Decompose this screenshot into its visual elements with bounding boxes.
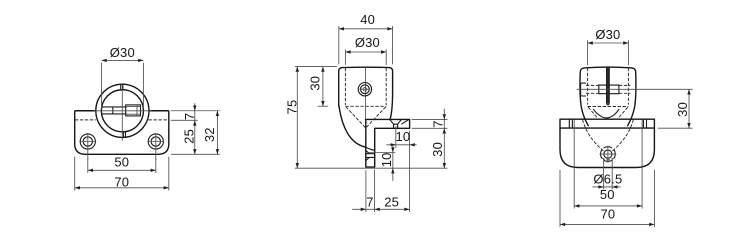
dimension Ø30 (front) line — [102, 59, 144, 61]
svg-text:Ø30: Ø30 — [595, 27, 620, 42]
svg-text:70: 70 — [114, 175, 129, 190]
center hole Ø6.5 (back) — [604, 150, 612, 158]
long bottom extension line — [295, 167, 447, 169]
left screw hole Ø6.5 — [83, 137, 92, 146]
svg-text:75: 75 — [284, 100, 299, 115]
dimension line for 32 — [216, 111, 218, 155]
svg-text:Ø30: Ø30 — [355, 35, 380, 50]
clamp screw center mark — [363, 87, 367, 91]
bore hidden lines (side) — [345, 68, 386, 106]
svg-text:7: 7 — [182, 113, 197, 120]
svg-text:30: 30 — [675, 102, 690, 117]
dimension 50 extension lines — [88, 158, 156, 173]
clamp screw head (side, axial) — [358, 83, 371, 96]
dimension Ø30 (side) extension lines — [345, 49, 386, 65]
dimension 10 (vertical) line — [392, 145, 394, 181]
base plate outline — [75, 111, 169, 155]
wall plate outline (back) — [560, 119, 654, 167]
bore hidden lines (back) — [588, 68, 629, 107]
dimension 50 (back) line — [574, 205, 642, 207]
body outline (back) — [580, 67, 636, 126]
center hole counterbore (back) — [600, 147, 615, 162]
dimension 70 extension lines — [75, 157, 169, 191]
dimension 40 line — [339, 28, 393, 30]
svg-text:10: 10 — [379, 152, 394, 167]
dimension 30 (back) line — [688, 89, 690, 128]
left screw hole counterbore — [80, 134, 95, 149]
body vertical centerline (side) — [365, 68, 367, 119]
dimension 30 (side left) bottom extension — [318, 105, 328, 107]
svg-text:30: 30 — [307, 76, 322, 91]
svg-text:50: 50 — [114, 155, 129, 170]
flange hole center extension line — [395, 126, 397, 147]
dimension Ø30 (back) extension lines — [588, 40, 629, 65]
right side extension lines (7/30) — [412, 119, 448, 128]
bottom clamp slit — [123, 132, 125, 138]
leg countersunk hole — [366, 150, 375, 160]
right screw hole Ø6.5 — [151, 137, 160, 146]
screw horizontal centerline — [577, 88, 693, 90]
svg-text:Ø6.5: Ø6.5 — [593, 171, 622, 186]
dimension Ø6.5 extension lines — [604, 159, 613, 190]
dimension 10 (horizontal) line — [386, 144, 416, 146]
flange end long extension line — [409, 131, 411, 212]
flange end diagonal — [402, 120, 409, 124]
dimension Ø30 (side) line — [345, 51, 386, 53]
dimension 50 (back) extension lines — [574, 120, 642, 209]
screw block in slit — [599, 85, 607, 94]
svg-text:25: 25 — [181, 129, 196, 144]
dimension line for 7 and 30 (side right) — [443, 109, 445, 169]
svg-text:25: 25 — [384, 195, 399, 210]
svg-text:10: 10 — [395, 129, 410, 144]
dimension 30 (side left) line — [322, 67, 324, 107]
hidden body outline behind plate — [583, 120, 634, 160]
svg-text:32: 32 — [202, 127, 217, 142]
svg-text:7: 7 — [430, 120, 445, 127]
right side extension lines (7/25/32) — [171, 111, 220, 155]
top clamp slit — [121, 85, 123, 91]
center hole centerlines — [599, 146, 616, 163]
dimension Ø30 (front) extension lines — [102, 63, 144, 109]
curve continuation to wall face — [366, 147, 375, 150]
plate band corner lines — [569, 119, 646, 128]
boss bottom arc — [593, 109, 619, 118]
dimension Ø6.5 line — [592, 186, 620, 188]
dimension 70 (back) line — [560, 223, 654, 225]
drill cone hidden lines (side) — [346, 107, 386, 128]
svg-text:40: 40 — [360, 12, 375, 27]
clamp slit (back) — [606, 67, 609, 103]
dimension 75 extension line top — [295, 66, 337, 68]
ring boss outer circle — [96, 84, 149, 137]
dimension 75 line — [296, 67, 298, 169]
dimension 50 line — [88, 169, 156, 171]
svg-text:7: 7 — [366, 195, 373, 210]
screw thread hidden (right) — [619, 85, 630, 93]
svg-text:50: 50 — [600, 187, 615, 202]
plate top band line — [560, 127, 654, 129]
right hole centerlines — [147, 133, 164, 159]
ring vertical centerline — [121, 84, 123, 140]
left hole centerlines — [79, 133, 96, 159]
dimension Ø30 (back) line — [588, 42, 629, 44]
flange countersunk hole — [390, 120, 402, 129]
clamp screw head — [126, 105, 141, 116]
drill cone hidden lines (back) — [588, 107, 628, 119]
body outline (side) — [339, 67, 393, 119]
leg hole center extension line — [368, 152, 395, 154]
screw block right of slit — [609, 85, 619, 94]
svg-text:Ø30: Ø30 — [110, 45, 135, 60]
ring bore circle Ø30 — [101, 90, 143, 132]
ring horizontal centerline — [94, 110, 152, 112]
wall plate leg and top flange outline — [366, 119, 410, 167]
dimension 70 line — [75, 187, 169, 189]
body lower curve to wall — [339, 106, 366, 148]
right screw hole counterbore — [148, 134, 163, 149]
dimension line 7 and 25 (bottom) — [352, 208, 409, 210]
dimension 30 (back) bottom extension — [658, 127, 693, 129]
dimension 40 extension lines — [339, 26, 393, 64]
dimension line for 7 and 25 — [194, 103, 196, 154]
bottom extension lines (7/25) — [366, 170, 375, 213]
screw shaft hidden (left) — [586, 85, 599, 93]
hidden edge line in base plate — [75, 119, 169, 121]
screw head recess (left bump) — [581, 83, 586, 96]
svg-text:70: 70 — [600, 207, 615, 222]
dimension 70 (back) extension lines — [560, 170, 654, 227]
svg-text:30: 30 — [430, 142, 445, 157]
clamp screw shaft — [102, 107, 127, 114]
